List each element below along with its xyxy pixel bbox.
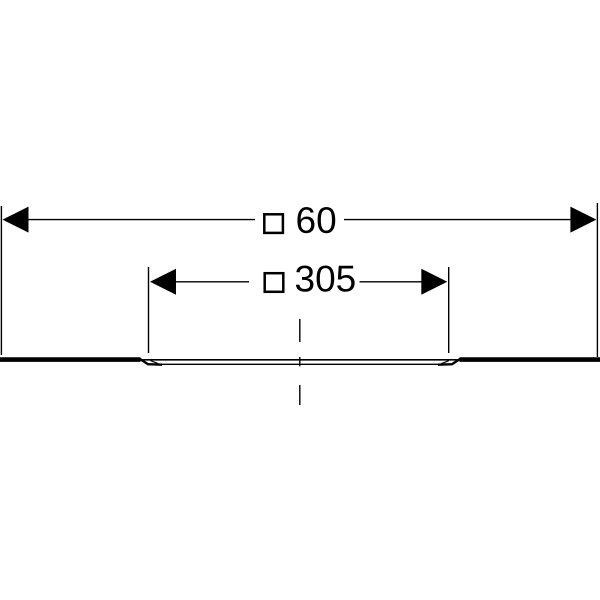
cover chamfer left — [151, 361, 159, 364]
cover bottom line — [162, 363, 439, 365]
svg-text:60: 60 — [296, 200, 337, 241]
seam step left — [139, 358, 162, 364]
arrowhead 305 right — [421, 269, 447, 295]
arrowhead 60 left — [3, 207, 29, 233]
seam step right — [438, 358, 461, 364]
square symbol (dim 60) — [264, 214, 283, 233]
tray surface thick line right — [460, 357, 600, 362]
centerline dash middle — [299, 357, 301, 366]
dimension line 305 right segment — [360, 281, 424, 283]
extension line right (dim 305) — [448, 267, 450, 353]
dimension line 60 right segment — [344, 219, 575, 221]
arrowhead 305 left — [150, 269, 176, 295]
cover chamfer right — [441, 361, 449, 364]
centerline dash bottom — [299, 385, 301, 405]
tray surface thick line left — [0, 357, 141, 362]
square symbol (dim 305) — [265, 273, 284, 292]
svg-text:305: 305 — [295, 259, 357, 300]
cover top line — [140, 359, 460, 361]
dimension line 60 left segment — [24, 219, 255, 221]
centerline dash top — [299, 319, 301, 342]
extension line left (dim 305) — [148, 267, 150, 353]
arrowhead 60 right — [570, 207, 596, 233]
dimension line 305 left segment — [172, 281, 249, 283]
extension line left (dim 60) — [0, 206, 2, 355]
extension line right (dim 60) — [596, 203, 598, 357]
